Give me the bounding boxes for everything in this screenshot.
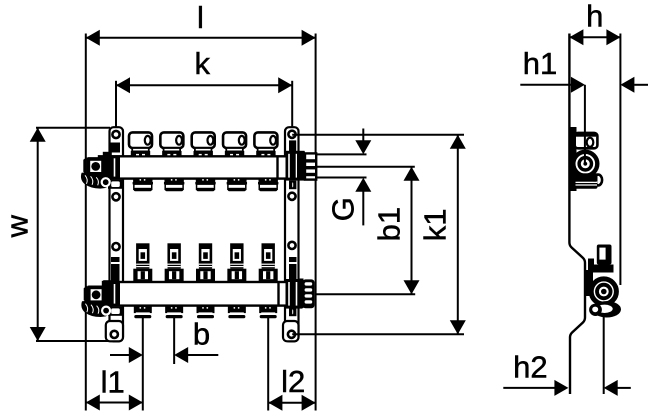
svg-text:h1: h1 (523, 46, 557, 81)
extension line k left (bracket axis) (115, 81, 117, 129)
right wall bracket (285, 127, 299, 341)
svg-text:h: h (586, 0, 603, 34)
right bracket foot hole (288, 331, 295, 338)
bar 2 outlet fitting 5 (259, 305, 277, 319)
dimension line k1 (457, 135, 459, 334)
right bracket hole 3 (288, 242, 295, 249)
bar 1 left clamp (104, 143, 123, 189)
bar 1 outlet fitting 3 (195, 178, 215, 192)
svg-text:k: k (195, 46, 211, 81)
extension line G top (316, 153, 367, 155)
dimension arrow b right (188, 354, 219, 356)
dimension arrow h2 left (503, 387, 554, 389)
side view bar 1 valve assembly (569, 127, 602, 191)
centre line top valve (h1 datum) (584, 85, 586, 134)
svg-text:h2: h2 (513, 349, 547, 384)
side view bar 2 valve assembly (584, 245, 621, 318)
svg-text:b1: b1 (372, 207, 407, 241)
dimension arrow h1 right (634, 84, 648, 86)
svg-text:l1: l1 (101, 364, 125, 399)
dimension line l (86, 37, 316, 39)
left bracket foot hole (111, 331, 118, 338)
dimension arrow h1 left (520, 84, 571, 86)
ball valve bar 2 (left end) (81, 280, 112, 317)
bar 2 connection nut (299, 279, 315, 309)
left wall bracket (110, 127, 124, 341)
extension line right end of manifold (l/l2 datum) (315, 34, 317, 411)
extension line outlet 5 centre (267, 317, 269, 411)
extension line b1 top (bar 1 axis) (316, 166, 415, 168)
extension line left end of manifold (l/l1 datum) (85, 34, 87, 411)
bar 2 outlet fitting 2 (165, 305, 183, 319)
thermostatic valve cap 1 (129, 132, 152, 156)
bar 2 end cap line (277, 282, 279, 306)
bar 2 outlet fitting 1 (134, 305, 152, 319)
extension line outlet 1 centre (142, 317, 144, 411)
extension line b1 bottom (bar 2 axis) (316, 293, 415, 295)
right bracket hole 2 (288, 193, 295, 200)
bar 2 outlet fitting 4 (228, 305, 246, 319)
flow meter 3 (196, 245, 215, 283)
flow meter 5 (259, 245, 278, 283)
bar 2 right clamp (286, 257, 303, 316)
bar 1 outlet fitting 5 (258, 178, 278, 192)
extension line k1 bottom (292, 333, 464, 335)
svg-text:l2: l2 (281, 364, 305, 399)
svg-text:G: G (326, 197, 361, 221)
dimension line l1 (86, 402, 143, 404)
centre line bottom valve (h2 datum) (603, 316, 605, 394)
left bracket hole 1 (112, 131, 119, 138)
side view bracket plate profile (569, 34, 585, 395)
dimension arrow G upper (362, 129, 364, 142)
left bracket hole 3 (112, 243, 119, 250)
flow meter 1 (133, 245, 152, 283)
svg-text:l: l (197, 0, 204, 35)
dimension line h (569, 36, 620, 38)
bar 2 outlet fitting 3 (197, 305, 215, 319)
ball valve bar 1 (left end) (81, 152, 112, 189)
svg-text:k1: k1 (418, 208, 453, 241)
extension line w top (36, 127, 110, 129)
right bracket hole 1 (288, 131, 295, 138)
extension line outlet 2 centre (173, 317, 175, 364)
thermostatic valve cap 3 (192, 132, 215, 156)
extension line k1 top (292, 134, 464, 136)
bar 2 left clamp (104, 257, 123, 316)
dimension line l2 (268, 402, 315, 404)
left bracket hole 2 (112, 193, 119, 200)
flow meter 2 (165, 245, 184, 283)
bar 1 outlet fitting 1 (133, 178, 153, 192)
svg-text:b: b (193, 317, 210, 352)
manifold bar 2 (return) (103, 282, 299, 306)
flow meter 4 (227, 245, 246, 283)
dimension arrow h2 right (618, 387, 631, 389)
right bracket foot (283, 321, 299, 341)
bar 1 threaded connector (G) (305, 153, 316, 179)
bar 1 connection nut (297, 152, 305, 181)
thermostatic valve cap 4 (223, 132, 246, 156)
extension line k right (bracket axis) (291, 81, 293, 129)
bar 1 right clamp (286, 140, 305, 189)
dimension arrow G lower (362, 191, 364, 225)
thermostatic valve cap 5 (254, 132, 277, 156)
centre line through top valve (584, 134, 586, 164)
side view extension line h right (619, 34, 621, 286)
manifold bar 1 (supply) (99, 156, 299, 178)
bar 1 outlet fitting 2 (164, 178, 184, 192)
left bracket foot (106, 321, 123, 341)
dimension line k (116, 84, 292, 86)
extension line G bottom (316, 177, 367, 179)
thermostatic valve cap 2 (160, 132, 183, 156)
extension line w bottom (36, 340, 113, 342)
dimension line w (37, 128, 39, 341)
bar 1 outlet fitting 4 (227, 178, 247, 192)
dimension line b1 (411, 167, 413, 294)
bar 2 left clamp slit (111, 262, 120, 264)
dimension arrow b left (110, 354, 129, 356)
bar 1 end cap line (276, 156, 278, 178)
svg-text:w: w (0, 214, 34, 238)
bar 2 right clamp slit (289, 262, 297, 264)
